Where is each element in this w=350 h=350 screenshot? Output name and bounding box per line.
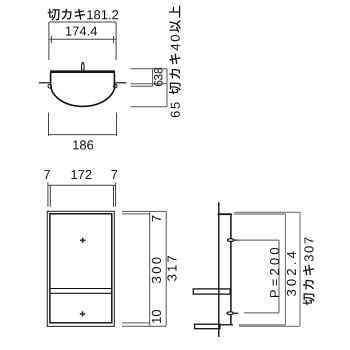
P bracket top arm [236, 239, 279, 241]
bottom ext line for 302.4 [239, 324, 285, 326]
left flange [39, 82, 51, 84]
upper mounting clip [228, 239, 234, 242]
P bracket vertical [278, 240, 280, 313]
right side wall [113, 73, 115, 85]
label 317 [167, 256, 176, 281]
divider line upper [50, 288, 112, 290]
face plate line [218, 202, 220, 337]
label 7 [152, 216, 161, 222]
ext line top outer [122, 210, 166, 212]
dim line 181.2 with end extensions [49, 22, 116, 60]
dim line 7/300/10 [149, 211, 151, 326]
top center pin [82, 62, 85, 71]
ext line top edge [131, 68, 168, 70]
right flange [114, 82, 126, 84]
divider line lower [50, 292, 112, 294]
top ext line for 307 [234, 211, 300, 213]
label 300 [152, 257, 161, 283]
label 7 left [44, 170, 50, 179]
left clip lug [48, 84, 51, 88]
label 7 right [111, 170, 117, 179]
center mark lower [80, 311, 85, 316]
outer rect [47, 211, 114, 326]
top cap [218, 213, 232, 215]
dim bracket 186 [49, 113, 117, 136]
center mark upper [80, 238, 85, 243]
upper shelf bar [193, 289, 230, 294]
lower shelf bar [195, 324, 220, 329]
ext line bottom outer [122, 325, 166, 327]
label 186 [73, 140, 93, 149]
label 172 [71, 170, 91, 179]
bottom ext line for 307 [239, 325, 300, 327]
dim line 302.4 [284, 214, 286, 325]
label: cutout width 181.2 [48, 9, 119, 21]
label cutout 307 [303, 238, 315, 306]
bottom lip [220, 324, 233, 326]
ext line top inner [122, 213, 150, 215]
label 38 [154, 68, 163, 80]
semicircular bowl [51, 85, 115, 107]
dim line 317 [165, 211, 167, 326]
dim line 7/172/7 [48, 184, 116, 186]
P bracket bottom arm [244, 312, 279, 314]
label 10 [152, 310, 161, 323]
ext line bottom inner [122, 322, 150, 324]
back wall [230, 214, 232, 326]
dim line 38 [152, 69, 154, 87]
label 302.4 [287, 252, 296, 297]
top ext line for 302.4 [234, 213, 286, 215]
right clip lug [114, 84, 117, 88]
ext line flange bottom [131, 85, 153, 87]
ext pair left [48, 183, 50, 207]
ext line bowl bottom [131, 106, 168, 108]
inner face rect [50, 214, 112, 323]
dim line 65 [166, 69, 168, 107]
label P=200 [270, 248, 279, 297]
dim line 307 [299, 212, 301, 326]
ext pair right [114, 183, 116, 207]
lower mounting clip [227, 312, 233, 315]
left side wall [50, 73, 52, 85]
body top line [50, 70, 115, 73]
label 65 / cutout 40 or more [169, 6, 181, 118]
label 6 [154, 81, 163, 87]
ext line flange top [131, 83, 168, 85]
label 174.4 [66, 27, 97, 36]
dim line 174.4 with end ticks [49, 36, 115, 43]
